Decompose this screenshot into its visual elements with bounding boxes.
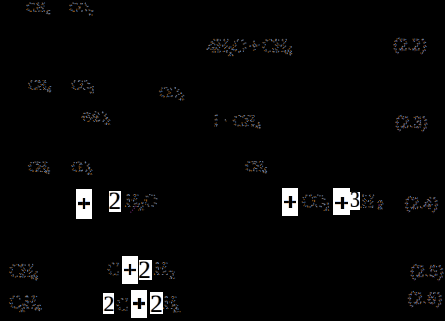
row H faint C2H4 — [9, 292, 42, 315]
row B: 4H2O + CH4 — [207, 36, 294, 59]
stray magenta slash under H2O — [131, 205, 138, 213]
row H: white box 2 (second) — [150, 292, 163, 314]
row F faint H2 italic — [361, 192, 384, 213]
row G faint CH4 — [9, 261, 40, 284]
row F faint CO2 italic — [302, 191, 331, 214]
eq number (2.4) — [405, 194, 439, 214]
row G faint H2 italic — [154, 259, 175, 282]
svg-text:2: 2 — [173, 301, 179, 315]
row G digit 2 — [138, 258, 151, 283]
stray dots after H2 (row F right) — [379, 205, 380, 206]
svg-text:CO2: CO2 — [160, 85, 185, 103]
eq number (2.6) — [408, 289, 443, 309]
svg-text:(2.5): (2.5) — [410, 262, 443, 281]
row A token CH4 — [26, 0, 52, 17]
row E token CH4 — [28, 160, 51, 178]
row D token +1/2O2 — [80, 110, 111, 128]
svg-text:CH4: CH4 — [29, 78, 52, 96]
row F: white box 2 — [109, 191, 121, 212]
svg-text:(2.2): (2.2) — [393, 36, 426, 55]
row H: white box 2 (first) — [103, 293, 114, 314]
eq number (2.2) — [393, 35, 427, 55]
row H faint H2 italic — [163, 293, 181, 316]
svg-text:(2.6): (2.6) — [408, 289, 442, 308]
svg-text:(2.4): (2.4) — [405, 194, 438, 213]
row F plus glyph 2 — [284, 201, 296, 204]
svg-text:C2H4: C2H4 — [10, 292, 42, 315]
row G faint C italic — [107, 259, 120, 279]
row F plus glyph 1 — [78, 202, 90, 205]
row G plus glyph — [124, 269, 136, 272]
row C token CH4 — [28, 78, 52, 96]
eq number (2.5) — [410, 262, 444, 282]
row F faint H2O italic — [125, 191, 158, 214]
row F plus glyph 3 — [335, 202, 348, 205]
svg-text:C: C — [108, 259, 120, 279]
row E mid token CH4 — [245, 159, 268, 177]
row F right: white box + — [282, 188, 298, 217]
svg-text:H: H — [361, 192, 375, 213]
row D token l + CH4 — [214, 113, 263, 132]
svg-text:l · CH4: l · CH4 — [214, 113, 262, 132]
svg-text:2: 2 — [169, 268, 175, 282]
svg-text:H2O: H2O — [126, 191, 158, 214]
eq number (2.3) — [395, 113, 428, 133]
svg-text:CO2: CO2 — [72, 160, 93, 178]
row C token CO2 — [71, 78, 95, 96]
svg-text:H: H — [155, 259, 168, 279]
svg-text:+½O2: +½O2 — [81, 110, 111, 128]
svg-text:(2.3): (2.3) — [395, 113, 427, 132]
row G: white box 2 — [139, 260, 153, 280]
svg-text:CH4: CH4 — [246, 159, 268, 177]
row H plus glyph — [133, 302, 145, 305]
row C mid token CO2 — [159, 85, 185, 103]
row H faint C italic — [116, 295, 129, 315]
row H digit 2 second — [150, 292, 163, 317]
row F digit 2 — [109, 189, 122, 214]
row A token CO2 — [69, 0, 94, 17]
svg-text:CH4: CH4 — [10, 261, 40, 284]
svg-text:CO2: CO2 — [302, 191, 330, 214]
row F: white box +3 (plus part) — [333, 188, 350, 215]
row H digit 2 first — [104, 293, 115, 315]
svg-text:4H2O + CH4: 4H2O + CH4 — [207, 36, 293, 59]
row F: white box + (left) — [76, 189, 92, 219]
svg-text:CH4: CH4 — [29, 160, 51, 178]
svg-text:CO2: CO2 — [72, 78, 95, 96]
row H: white box + — [131, 290, 147, 319]
row E token CO — [71, 160, 93, 178]
row G: white box + — [122, 256, 139, 284]
row F: white box +3 (3 part) — [350, 192, 360, 210]
row F digit 3 — [350, 189, 360, 213]
svg-text:C: C — [117, 295, 129, 315]
svg-text:CH4: CH4 — [27, 0, 52, 17]
svg-text:CO2: CO2 — [70, 0, 94, 17]
